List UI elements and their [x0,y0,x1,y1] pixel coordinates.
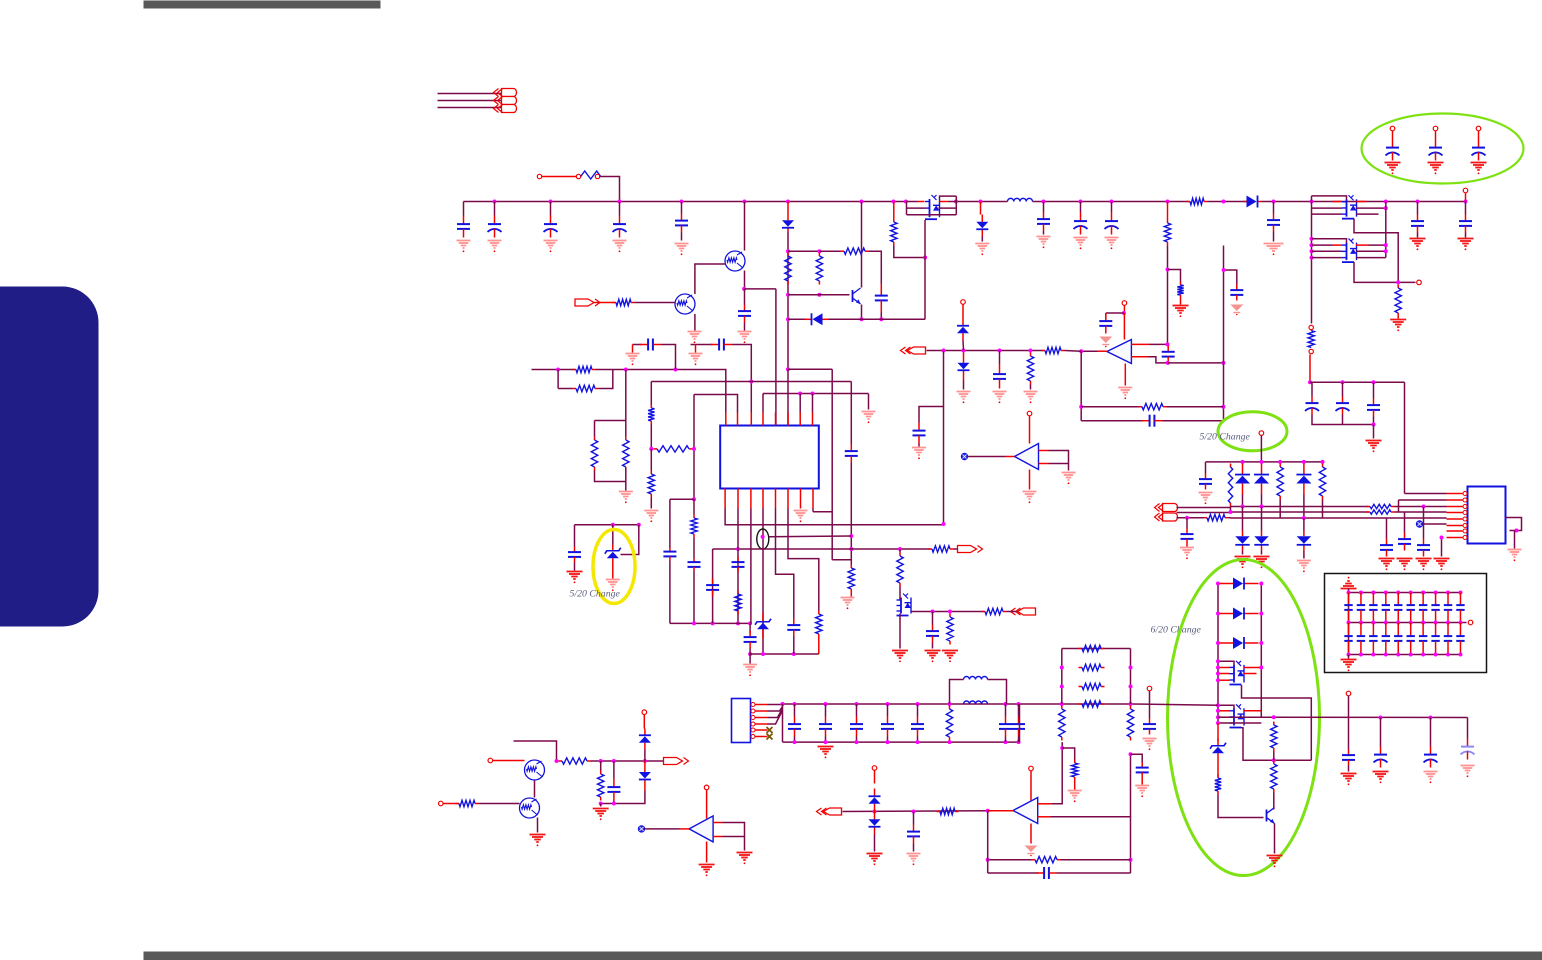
lead bus into Q4 [918,201,925,203]
lead Q8 row2 right [1244,673,1257,675]
ground below U1 pin7b [794,511,808,523]
resistor R36 [1059,706,1065,741]
lead U3 pin3 [1447,506,1463,508]
junction x1130/C45 [1129,752,1133,756]
lead Q9 row2 right [1244,716,1262,718]
top gray header bar [144,1,381,9]
wire stack left rail [1217,584,1219,724]
wire line y=548 right [851,548,930,550]
junction rail/diode y=642.5 [1216,641,1220,645]
junction return bus x=1018 [1017,740,1021,744]
wire line y=536 [769,535,852,538]
junction Q1 node [742,287,746,291]
wire to C42 [932,612,934,625]
wire Q1 base to Q2 [695,264,726,294]
resistor R19 [648,405,654,425]
lead Q9 row2 [1218,716,1230,718]
no-connect X J4 pin6 [767,734,773,740]
wire to connector J1 pin3 [438,107,502,109]
junction filter bus x=782 [781,702,785,706]
wire to C43 [613,761,615,779]
wire D14 down [1303,551,1305,559]
lead U1 bottom pin x=812.5 [812,489,814,509]
lead terminal to cap x=1392 [1392,131,1394,140]
wire cap to return x=856 [856,737,858,743]
wire feedback cap line left [1081,420,1143,422]
lead Q8 row1 right [1244,667,1262,669]
wire Q3 emitter down [861,305,863,320]
pin circle U3 pin6 [1463,524,1467,528]
resistor R15 [573,366,596,372]
lead C23 line to ground [695,345,697,353]
lead into U4 apex [1006,456,1015,458]
capacitor C14 [993,365,1006,389]
lead U1 bottom pin x=724.6 [724,489,726,509]
wire Q5 gate to R14 [1354,219,1398,283]
inductor L2 [964,677,988,680]
capacitor C12 feedback [1142,415,1163,427]
diode D10 [1254,464,1269,495]
highlight ellipse (yellow, 5/20 change) [593,530,635,604]
junction pin7/L5 [798,392,802,396]
ground (triangle) below C21 [1230,305,1243,316]
ground below R49 [1068,791,1082,803]
terminal ladder sense [1147,686,1152,691]
capacitor filter x=887 [881,717,894,737]
diode D9 [1235,464,1250,495]
junction rail right y=583 [1259,582,1263,586]
lead U5 out2 [713,836,722,838]
ground below U2 [1118,388,1132,400]
wire Q10 emitter [1274,824,1276,854]
wire input line to U6 [843,810,988,813]
resistor R42 [897,553,903,587]
junction R pair left [556,368,560,372]
junction bank top col7 [1421,591,1425,595]
wire bank top stub [1348,589,1350,593]
junction C22 line tap [674,368,678,372]
wire R28b to bus2 [1230,507,1232,513]
wire feedback column x=1223 [1223,246,1225,421]
wire L4 to U1 pin2 [694,395,738,413]
junction C11 bottom [1166,361,1170,365]
wire array top rail [1231,461,1323,463]
resistor R14 [1395,285,1401,317]
ground below capacitor x=550 [544,241,558,253]
wire R32 to node [1273,752,1275,761]
junction rail/Q9 y=704.7 [1216,703,1220,707]
junction clamp diodes [962,349,966,353]
wire x=831.7 column [831,369,833,559]
wire bus to cap x=856 [856,704,858,717]
wire C23 line left [691,344,713,346]
wire array bus1 [1231,506,1369,508]
junction on bus x=1273 [1272,200,1276,204]
lead U1 bottom pin x=787.5 [787,489,789,509]
junction gate loop/R33 [1272,758,1276,762]
wire D22 to ground [874,835,876,852]
terminal comparator V+ [1027,411,1032,416]
junction rail/Q9 y=722.5 [1216,721,1220,725]
transistor Q11 [525,760,545,780]
lead U4 to ground [1029,470,1031,490]
svg-text:6/20 Change: 6/20 Change [1151,625,1202,636]
lead U3 pin1 [1447,493,1463,495]
terminal input 1 [488,758,493,763]
lead input to Q11 [493,760,525,762]
wire D4 to line [962,341,965,351]
wire branch to C21 [1224,270,1237,285]
junction rail/Q9 y=710.3 [1216,709,1220,713]
wire J4 pin4 merge [768,711,783,725]
resistor R10 in series on bus [1187,198,1208,204]
junction C8 bottom [879,317,883,321]
wire to C36 [1423,507,1425,539]
junction U2 input node [1166,342,1170,346]
ground below cap bank [1366,441,1382,453]
ground below D3 [975,244,989,256]
junction J5/C32 [1185,516,1189,520]
connector J1 pin2 [494,97,517,105]
junction feedback bottom [1129,858,1133,862]
wire ladder right rail [1130,649,1132,705]
junction pin8 drop [1440,536,1444,540]
capacitor C at x=619 [613,216,627,238]
transistor Q3 [853,288,861,304]
wire line548 to R42 [899,549,901,553]
wire C20 to ground [1273,232,1275,242]
diode D5 on bus [1244,196,1262,208]
wire cap to return x=1005 [1005,737,1007,743]
resistor R9 [1177,282,1183,299]
input terminal (crossed circle) [961,453,967,459]
wire R31 to U3 [1395,511,1447,513]
lead U1 bottom pin x=800 [800,489,802,509]
wire feedback R line right [1061,859,1131,861]
junction return bus x=887 [886,740,890,744]
capacitor bank bottom C2 [1357,623,1365,655]
diode D22 down [869,812,881,835]
lead U3 pin4 [1447,512,1463,514]
junction Q6 right [1384,243,1388,247]
wire fuse F1 to +V bus [600,177,620,202]
wire bus to cap x=794 [794,704,796,717]
highlight ellipse (top-right change) [1362,114,1524,184]
wire line y=548 left [713,548,852,550]
junction U6 input [986,809,990,813]
lead V+ into U6 [1030,771,1032,801]
capacitor filter x=856 [850,717,863,737]
junction bank bottom col2 [1359,653,1363,657]
junction Q6 row1 [1310,243,1314,247]
lead V+ into U2 [1123,313,1125,340]
junction bank bottom col3 [1371,653,1375,657]
wire Q6 row3 left [1312,257,1343,259]
wire J5 pin1 line [1177,507,1231,509]
junction array top x=1322 [1321,460,1325,464]
junction R28b/bus2 [1229,510,1233,514]
lead rail to zener D18 [1217,723,1219,741]
lead Q9 row1 right [1244,710,1262,712]
resistor R44 [982,608,1007,614]
wire C18 to ground [1417,233,1419,238]
wire D13 down [1261,551,1263,555]
wire bank bottom stub [1348,655,1350,659]
capacitor C13 [913,423,926,444]
capacitor C42 [926,625,939,643]
junction filter bus x=917 [916,702,920,706]
pin circle U3 pin7 [1463,529,1467,533]
diode D14 [1297,531,1311,551]
junction on bus x=619 [618,200,622,204]
wire filter return bus [783,741,1020,743]
junction on bus x=550 [549,200,553,204]
wire column to x=851 [832,559,851,561]
junction bank mid col8 [1434,621,1438,625]
junction bank top col8 [1434,591,1438,595]
lead bus to D3 [980,202,982,215]
capacitor filter x=825 [819,717,832,737]
junction R20 right [692,447,696,451]
wire zener cathode jog [621,525,639,555]
ground below C23 [689,354,703,366]
junction on bus x=955.5 [954,200,958,204]
ground below C38 [1373,772,1389,784]
wire to connector J1 pin2 [438,100,502,102]
junction pin8/L5 [811,392,815,396]
lead J4 pin6 [755,736,768,738]
ground top-left of bank (flipped) [1341,577,1357,589]
wire R13 to U2 node [1065,350,1082,353]
wire R22 to C25 [693,538,695,559]
wire C30 to line [749,649,751,655]
junction in oval [761,535,765,539]
lead Q5 row1 right [1356,201,1367,203]
wire R45 to output [591,760,664,762]
wire pin8 up-link [812,394,814,413]
junction x943/line524 (none) [942,522,946,526]
mosfet Q4 [925,195,940,219]
op-amp U6 [1013,798,1038,824]
wire D20 to return [601,791,645,804]
wire Q7 drain line [912,611,984,613]
wire L2 to U1 pin1 [596,370,726,413]
resistor R31 [1367,510,1395,514]
lead V+ into U5 [706,790,708,819]
wire feedback cap line right [1163,420,1224,422]
junction R8/R9 node [1166,268,1170,272]
capacitor C11 [1162,346,1175,363]
junction array top x=1242 [1241,460,1245,464]
resistor R7 [891,219,897,246]
junction on bus x=1465 [1464,200,1468,204]
wire Q6 row2 left [1312,250,1343,252]
capacitor C37 [1342,750,1355,766]
resistor R13 series [1042,347,1065,353]
wire bus1 to D13 [1261,507,1263,531]
connector input ACIN [901,347,926,354]
capacitor filter x=917 [911,717,924,737]
wire bank bottom bus [1349,654,1461,656]
junction Q6 row2 [1310,249,1314,253]
wire cap to return x=794 [794,737,796,743]
mosfet Q5a [1342,195,1357,218]
capacitor C32 [1181,529,1194,545]
wire Q4 row2 right [939,207,957,209]
wire ladder top [1062,648,1131,650]
resistor R29 [1319,464,1325,500]
wire U1 pin2b column [737,509,739,624]
resistor R5 [816,253,822,285]
wire C19 to ground [1465,233,1467,238]
resistor R11 feedback [1139,404,1167,410]
lead U2 +in [1131,343,1150,345]
junction bank bottom col1 [1347,653,1351,657]
junction output/feedback [1079,405,1083,409]
wire cap to return x=825 [825,737,827,743]
junction ladder left 2 [1060,666,1064,670]
wire terminal to diode array bus [1260,436,1262,462]
capacitor bank bottom C6 [1407,623,1415,655]
wire U1 pin5b jog [776,509,794,619]
diode D2 (points left) [805,313,829,325]
wire C23 to U1 pin3 [733,345,752,413]
diode D12 [1235,531,1249,551]
connector J5 pin1 [1155,504,1178,512]
wire to C38 [1380,718,1382,747]
wire bus to capacitor x=1111 [1111,202,1113,213]
lead Q6 row1 right [1356,244,1369,246]
wire array bus2 [1231,511,1369,513]
capacitor C17 [1367,399,1380,417]
ground below cap x=1392 [1385,163,1401,175]
capacitor bank bottom C1 [1344,623,1352,655]
transistor Q2 [675,294,695,314]
junction rail right y=613 [1259,612,1263,616]
wire bus to capacitor C5 [681,202,683,214]
wire junction to R6 [819,250,840,252]
wire FET rail down [1311,216,1313,324]
wire L3 [651,381,851,383]
wire return to ground [1373,425,1375,439]
resistor R35 [946,706,952,741]
resistor R26 [816,611,822,638]
pin circle U3 pin1 [1463,492,1467,496]
terminal clamp top [872,766,877,771]
lead fuse top [1310,330,1312,331]
junction rail/Q8 y=660.8 [1216,659,1220,663]
lead U1 top pin x=725.3 [725,413,727,426]
lead U3 pin5 [1447,518,1463,520]
resistor R49 [1072,760,1078,781]
capacitor C36 [1417,539,1430,557]
wire input column down [987,811,989,873]
wire pin6 branch to column [788,368,832,370]
wire top jog to Q11 node [514,741,557,761]
transistor Q12 [520,798,540,818]
lead U6 +in [1038,803,1052,805]
junction cap bus left [1308,380,1312,384]
junction rail/diode y=583 [1216,582,1220,586]
junction U3 right [1515,529,1519,533]
lead U1 top pin x=787.5 [787,413,789,426]
junction zener top [611,523,615,527]
wire to R22 [693,499,695,514]
wire line y=653 [750,653,819,655]
junction on bus x=893 [892,200,896,204]
wire bus to capacitor x=1080 [1080,202,1082,213]
wire V+ branch to C10 [1106,312,1124,314]
wire R47 to Q12 [479,803,520,805]
resistor R17 [591,437,597,471]
wire capacitor C5 to ground [681,233,683,241]
wire to C32 [1186,518,1188,529]
junction filter bus x=1018 [1017,702,1021,706]
wire Q8 gate loop [1242,685,1312,760]
wire pin2 feed [1398,500,1400,512]
lead U1 top pin x=737 [737,413,739,426]
ground below C14 [993,392,1007,404]
junction cap bus right [1372,380,1376,384]
lead U2 to ground [1124,364,1126,386]
junction return bus x=794 [793,740,797,744]
junction return bus x=856 [855,740,859,744]
wire R4-R5 bottom [788,294,819,296]
lead Q8 row2 [1218,673,1230,675]
capacitor C44 [907,825,920,844]
junction on bus x=1223 [1222,200,1226,204]
capacitor filter x=1018 [1012,717,1025,737]
resistor R47 [456,800,479,806]
wire cap to return x=1018 [1018,737,1020,743]
ground below C13 [912,448,926,460]
diode D15 [1220,578,1259,590]
junction R5 bottom [817,293,821,297]
junction ladder right 2 [1129,666,1133,670]
lead C45 to ground [1141,778,1143,785]
capacitor C at x=494 [488,216,502,238]
wire R19 to node [650,425,652,449]
junction feedback R [1221,405,1225,409]
mosfet Q9 [1230,704,1245,727]
junction on bus x=905.3 [904,200,908,204]
junction Q3 emitter node [860,317,864,321]
input terminal U3 [1416,521,1422,527]
wire L3 left down [650,382,652,405]
capacitor (polarized) x=1435 [1429,140,1443,161]
junction on bus x=1385.3 [1384,200,1388,204]
lead into U5 apex [680,828,690,830]
wire C44 down [913,844,915,852]
wire R42 to Q7 [899,587,901,600]
lead bus to diode D1 [787,202,789,217]
ground below C5 [675,244,689,256]
transistor Q1 [725,251,745,271]
inductor L3 [964,701,988,704]
wire branch to C45 [1131,754,1143,762]
lead R23 to ground [850,593,852,597]
lead U3 pin2 [1447,499,1463,501]
wire to C26 [574,525,576,547]
junction +in branch [1060,746,1064,750]
lead U1 bottom pin x=737.5 [737,489,739,509]
junction filter bus x=949 [948,702,952,706]
junction rail/Q8 y=679.7 [1216,678,1220,682]
wire R pair left leg [557,370,559,389]
comparator U4 [1015,444,1039,470]
ground below cap x=1435 [1428,163,1444,175]
junction diode tap [643,759,647,763]
